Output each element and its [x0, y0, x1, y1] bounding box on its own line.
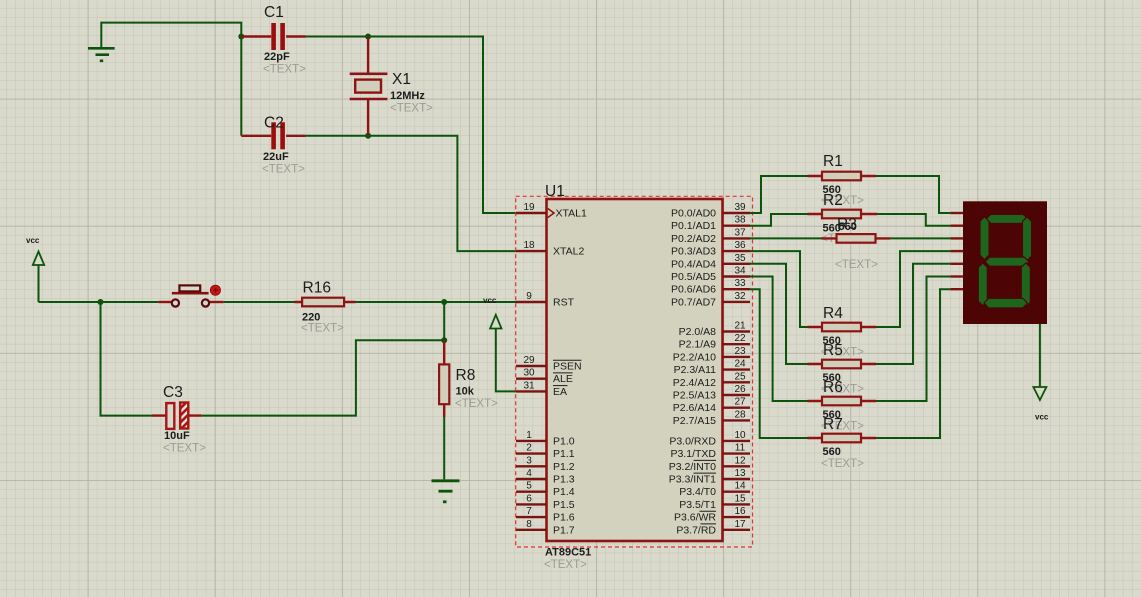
wire display common to vcc [1039, 324, 1041, 387]
wire R6 to display seg f [876, 277, 950, 402]
svg-text:34: 34 [734, 266, 746, 277]
svg-text:<TEXT>: <TEXT> [163, 443, 206, 455]
svg-text:R5: R5 [823, 342, 843, 359]
svg-text:P1.6: P1.6 [553, 512, 575, 524]
svg-text:vcc: vcc [483, 296, 497, 305]
svg-text:38: 38 [734, 215, 746, 226]
svg-text:P1.7: P1.7 [553, 524, 575, 536]
svg-text:21: 21 [734, 321, 746, 332]
crystal X1 [350, 37, 433, 136]
svg-text:17: 17 [734, 519, 746, 530]
svg-text:C1: C1 [264, 4, 284, 21]
svg-text:P3.6/WR: P3.6/WR [674, 512, 716, 524]
wire P0.3 to R4 [750, 251, 808, 327]
svg-text:<TEXT>: <TEXT> [262, 164, 305, 176]
svg-text:10uF: 10uF [164, 430, 190, 442]
resistor R7 560 [808, 416, 877, 470]
svg-text:14: 14 [734, 481, 746, 492]
svg-text:11: 11 [735, 443, 746, 454]
wire RST rail left [39, 301, 159, 303]
svg-text:9: 9 [526, 291, 532, 302]
svg-text:19: 19 [523, 202, 535, 213]
svg-text:P3.1/TXD: P3.1/TXD [670, 448, 716, 460]
svg-text:15: 15 [734, 493, 746, 504]
power VCC mid (EA) [483, 296, 516, 391]
svg-text:P2.5/A13: P2.5/A13 [673, 390, 716, 402]
svg-text:8: 8 [526, 519, 532, 530]
svg-text:P2.4/A12: P2.4/A12 [673, 377, 716, 389]
svg-text:37: 37 [734, 227, 746, 238]
power VCC left [26, 236, 44, 302]
svg-text:R6: R6 [823, 379, 843, 396]
wire C1 to XTAL1 [306, 37, 517, 214]
svg-text:XTAL2: XTAL2 [553, 246, 584, 258]
svg-text:R8: R8 [456, 367, 476, 384]
svg-text:R4: R4 [823, 305, 843, 322]
svg-text:<TEXT>: <TEXT> [263, 64, 306, 76]
svg-text:P2.1/A9: P2.1/A9 [679, 339, 717, 351]
wire junction down to C3 [101, 302, 153, 416]
svg-text:<TEXT>: <TEXT> [544, 559, 587, 571]
svg-text:R1: R1 [823, 153, 843, 170]
svg-text:P3.0/RXD: P3.0/RXD [669, 435, 716, 447]
wire P0.5 to R6 [750, 277, 808, 402]
svg-text:P3.5/T1: P3.5/T1 [679, 499, 716, 511]
svg-text:R16: R16 [303, 280, 331, 297]
svg-text:10: 10 [734, 430, 746, 441]
svg-text:R2: R2 [823, 192, 843, 209]
node junction RST/C3 branch [98, 299, 104, 305]
svg-text:39: 39 [734, 202, 746, 213]
svg-text:32: 32 [734, 291, 746, 302]
pin labels left [553, 208, 587, 537]
svg-text:P1.4: P1.4 [553, 486, 575, 498]
wire C3 to R8 branch [202, 340, 445, 415]
svg-text:P0.0/AD0: P0.0/AD0 [671, 208, 716, 220]
wire P0.2 to R3 [750, 237, 822, 239]
pin numbers right [734, 202, 746, 530]
svg-text:P0.2/AD2: P0.2/AD2 [671, 233, 716, 245]
svg-text:P0.7/AD7: P0.7/AD7 [671, 296, 716, 308]
svg-text:4: 4 [526, 468, 532, 479]
node junction RST/R8 [441, 299, 447, 305]
svg-text:P0.4/AD4: P0.4/AD4 [671, 258, 716, 270]
svg-text:28: 28 [734, 409, 746, 420]
wire R5 to display seg e [876, 264, 950, 364]
wire R16 to RST pin [356, 301, 517, 303]
op selection box (red dashed) around U1 [516, 196, 753, 547]
wire R2 to display seg b [877, 214, 950, 226]
svg-text:33: 33 [734, 278, 746, 289]
svg-text:<TEXT>: <TEXT> [390, 103, 433, 115]
svg-text:P2.3/A11: P2.3/A11 [674, 364, 717, 376]
svg-text:XTAL1: XTAL1 [556, 208, 587, 220]
resistor R6 560 [808, 379, 877, 433]
svg-text:P3.2/INT0: P3.2/INT0 [669, 461, 716, 473]
svg-text:P0.6/AD6: P0.6/AD6 [671, 284, 716, 296]
svg-text:560: 560 [839, 221, 857, 233]
node junction R8 branch [441, 337, 447, 343]
display segment a [986, 214, 1028, 223]
resistor R2 560 [808, 192, 878, 245]
node junction X1 top [365, 34, 371, 40]
svg-text:P0.3/AD3: P0.3/AD3 [671, 246, 716, 258]
svg-text:12MHz: 12MHz [390, 90, 425, 102]
svg-text:U1: U1 [545, 183, 565, 200]
svg-text:29: 29 [523, 355, 535, 366]
svg-text:P0.5/AD5: P0.5/AD5 [671, 271, 716, 283]
pin 19 clock marker [548, 209, 554, 218]
svg-text:P1.1: P1.1 [553, 448, 575, 460]
svg-text:22: 22 [734, 333, 746, 344]
capacitor C1 [241, 4, 306, 76]
svg-text:22pF: 22pF [264, 51, 290, 63]
svg-text:vcc: vcc [26, 236, 40, 245]
svg-text:ALE: ALE [553, 373, 573, 385]
svg-text:10k: 10k [456, 386, 475, 398]
wire R3 to display seg c [890, 237, 950, 239]
svg-text:P3.7/RD: P3.7/RD [676, 524, 716, 536]
svg-text:X1: X1 [392, 71, 411, 88]
svg-text:P2.2/A10: P2.2/A10 [673, 351, 716, 363]
wire P0.6 to R7 [750, 289, 808, 438]
svg-text:<TEXT>: <TEXT> [301, 323, 344, 335]
svg-text:31: 31 [523, 380, 535, 391]
svg-text:<TEXT>: <TEXT> [455, 398, 498, 410]
svg-text:PSEN: PSEN [553, 361, 582, 373]
wire gnd1 to C1 net [101, 23, 241, 136]
ground GND2 under R8 [432, 481, 460, 502]
svg-text:6: 6 [526, 493, 532, 504]
svg-text:RST: RST [553, 297, 575, 309]
svg-text:2: 2 [526, 443, 532, 454]
7-segment display body [963, 201, 1047, 324]
svg-text:P1.3: P1.3 [553, 474, 575, 486]
svg-text:vcc: vcc [1035, 413, 1049, 422]
svg-text:<TEXT>: <TEXT> [821, 458, 864, 470]
svg-text:C2: C2 [264, 115, 284, 132]
svg-text:P3.3/INT1: P3.3/INT1 [669, 474, 716, 486]
svg-text:7: 7 [526, 506, 532, 517]
resistor R16 220 [295, 280, 356, 335]
pin label overlines left [553, 360, 582, 385]
pin stubs right [723, 213, 751, 530]
svg-text:22uF: 22uF [263, 151, 289, 163]
svg-text:36: 36 [734, 240, 746, 251]
svg-text:23: 23 [734, 346, 746, 357]
wire R7 to display seg g [876, 289, 950, 438]
svg-text:P2.0/A8: P2.0/A8 [679, 326, 717, 338]
svg-text:35: 35 [734, 253, 746, 264]
svg-text:560: 560 [823, 446, 841, 458]
svg-text:EA: EA [553, 386, 567, 398]
display segment b [1023, 217, 1032, 261]
svg-text:18: 18 [523, 240, 535, 251]
svg-text:5: 5 [526, 481, 532, 492]
pin stubs left [516, 213, 547, 530]
pin numbers left [523, 202, 535, 530]
wire P0.1 to R2 [750, 214, 808, 226]
display segment e [978, 263, 987, 306]
resistor R3 560 [822, 216, 891, 271]
svg-text:P1.0: P1.0 [553, 435, 575, 447]
svg-text:27: 27 [734, 397, 746, 408]
svg-text:P3.4/T0: P3.4/T0 [679, 486, 716, 498]
ground GND1 top-left [88, 48, 115, 61]
svg-text:C3: C3 [163, 384, 183, 401]
svg-text:P0.1/AD1: P0.1/AD1 [671, 220, 716, 232]
svg-text:1: 1 [526, 430, 532, 441]
svg-text:25: 25 [734, 371, 746, 382]
switch push-button [158, 285, 223, 306]
capacitor C3 10uF electrolytic [152, 384, 206, 455]
resistor R8 10k [439, 340, 498, 417]
resistor R4 560 [808, 305, 877, 359]
svg-text:P2.6/A14: P2.6/A14 [673, 402, 716, 414]
node junction X1 bottom [365, 133, 371, 139]
svg-text:24: 24 [734, 359, 746, 370]
display segment g [985, 257, 1029, 266]
display segment d [984, 298, 1027, 308]
display segment c [1021, 263, 1030, 307]
resistor R1 560 [808, 153, 877, 207]
chip U1 AT89C51 body [547, 199, 723, 541]
wire switch to R16 [224, 301, 295, 303]
display pin stubs [950, 213, 963, 289]
resistor R5 560 [808, 342, 877, 396]
svg-text:P1.2: P1.2 [553, 461, 575, 473]
wire R8 to ground [443, 417, 445, 479]
svg-text:P1.5: P1.5 [553, 499, 575, 511]
svg-text:AT89C51: AT89C51 [545, 547, 591, 559]
svg-text:30: 30 [523, 368, 535, 379]
wire R1 to display seg a [876, 176, 950, 213]
svg-text:13: 13 [734, 468, 746, 479]
display segment f [980, 217, 989, 260]
wire C2 to XTAL2 [306, 136, 517, 251]
node junction C1 left [238, 34, 244, 40]
svg-text:26: 26 [734, 384, 746, 395]
power VCC right (down arrow) [1033, 387, 1048, 422]
wire P0.4 to R5 [750, 264, 808, 364]
svg-text:12: 12 [734, 455, 746, 466]
svg-text:16: 16 [734, 506, 746, 517]
pin labels right [669, 208, 717, 537]
wire R4 to display seg d [876, 251, 950, 327]
capacitor C2 [241, 115, 305, 176]
svg-text:P2.7/A15: P2.7/A15 [673, 415, 716, 427]
svg-text:<TEXT>: <TEXT> [835, 259, 878, 271]
wire RST junction down [443, 302, 445, 340]
svg-text:3: 3 [526, 455, 532, 466]
pin label overlines right [694, 460, 717, 524]
svg-text:R7: R7 [823, 416, 843, 433]
wire P0.0 to R1 [750, 176, 808, 213]
